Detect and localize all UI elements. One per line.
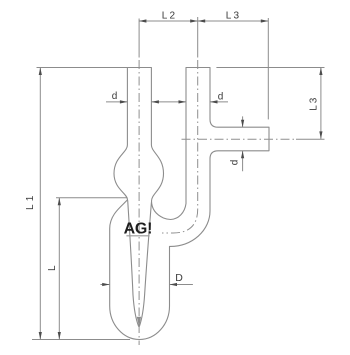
arrow D left (102, 283, 110, 286)
ext line L2/L3 middle (above right tube) (197, 17, 199, 58)
dim line L3 top (198, 20, 269, 22)
arrow d main left-outer (120, 100, 128, 103)
arrow L3 top-right (261, 19, 269, 22)
dim line d side tube (242, 116, 244, 171)
AG! logo underline (126, 235, 149, 237)
main vessel outline (110, 68, 269, 340)
inner cone (tapered tube inside vessel) (128, 201, 152, 328)
arrow D right (170, 283, 178, 286)
svg-text:d: d (112, 91, 118, 102)
cone right wall (139, 203, 151, 327)
arrow d side tube down (241, 120, 244, 128)
ext line bottom (L1 and L) (32, 339, 130, 341)
arrow d right tube left-inner (179, 100, 187, 103)
svg-text:L3: L3 (308, 96, 319, 111)
arrow L2 right (190, 19, 198, 22)
arrow right L3 down (319, 131, 322, 139)
dimension labels (25, 10, 320, 284)
svg-text:L3: L3 (226, 10, 242, 21)
arrow L down (58, 332, 61, 340)
dimension lines (40, 21, 321, 340)
arrow L up (58, 198, 61, 206)
arrow right L3 up (319, 68, 322, 76)
svg-text:d: d (230, 160, 241, 166)
svg-text:D: D (175, 272, 183, 284)
svg-text:d: d (218, 92, 224, 103)
dim line L1 (39, 68, 41, 340)
extension lines (32, 17, 325, 340)
ext line right L3 bottom (centerline extension) (296, 138, 325, 140)
dim line L (58, 198, 60, 340)
centerline right tube with bend (162, 60, 198, 233)
centerline side tube (182, 138, 297, 140)
arrow d side tube up (241, 151, 244, 159)
svg-text:L2: L2 (162, 10, 178, 21)
arrow L2 left (139, 19, 147, 22)
ext line L top (56, 197, 127, 199)
svg-text:L: L (47, 265, 58, 271)
centerline main tube (139, 60, 296, 345)
cone left wall (128, 201, 139, 327)
dim line D (100, 284, 192, 286)
arrow L1 down (39, 332, 42, 340)
arrowheads (39, 19, 323, 339)
ext line L3 right (side tube end) (267, 18, 269, 119)
svg-text:AG!: AG! (124, 220, 152, 237)
arrow L3 top-left (198, 19, 206, 22)
arrow L1 up (39, 68, 42, 76)
cone tip (137, 317, 140, 327)
ext line right L3 top (216, 67, 324, 69)
dim line d main tube (106, 101, 228, 103)
ext line L1 top (37, 67, 128, 69)
dim line L3 right (320, 68, 322, 139)
dim line L2 (139, 20, 198, 22)
svg-text:L1: L1 (25, 192, 36, 210)
ext line L2 left (above main tube) (138, 19, 140, 58)
glass body outline (110, 68, 269, 340)
arrow d main right-inner (151, 100, 159, 103)
arrow d right tube right-outer (210, 100, 218, 103)
